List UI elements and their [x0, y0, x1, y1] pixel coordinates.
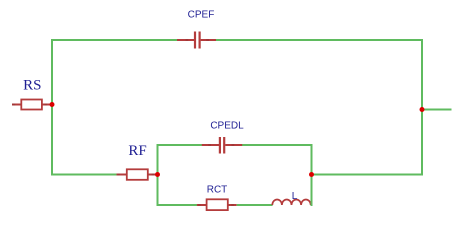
- pin tick CPEF left lead: [186, 39, 189, 41]
- resistor RF: [117, 169, 158, 180]
- wire top rail right segment: [216, 39, 423, 41]
- wire sub-circuit right rail: [311, 144, 313, 206]
- pin tick RCT right lead: [231, 204, 234, 206]
- wire middle horizontal: [312, 174, 424, 176]
- wire bottom branch middle segment: [237, 204, 273, 206]
- wire CPEDL branch left segment: [157, 144, 203, 146]
- pin tick RS right lead: [45, 104, 48, 106]
- svg-text:RCT: RCT: [207, 185, 228, 196]
- wire right rail vertical: [421, 39, 423, 176]
- junction dot sub-circuit-right/middle-wire: [309, 172, 314, 177]
- wire RF branch: [52, 174, 117, 176]
- junction dot RS/left-rail: [50, 102, 55, 107]
- wire sub-circuit left rail: [157, 144, 159, 206]
- pin tick RF left lead: [117, 174, 120, 176]
- capacitor CPEDL: [202, 137, 242, 154]
- pin tick RCT left lead: [198, 204, 201, 206]
- pin tick CPEDL left lead: [208, 144, 211, 146]
- wire bottom branch left segment: [157, 204, 198, 206]
- svg-text:CPEDL: CPEDL: [210, 121, 244, 132]
- junction dot RF/sub-circuit-left: [155, 172, 160, 177]
- pin tick CPEF right lead: [206, 39, 209, 41]
- wire top rail left segment: [52, 39, 178, 41]
- wire left rail vertical: [51, 39, 53, 176]
- junction dot right-rail/output: [420, 107, 425, 112]
- svg-text:L: L: [292, 191, 298, 202]
- pin tick RF right lead: [152, 174, 155, 176]
- inductor L: [272, 200, 310, 206]
- resistor RS: [12, 100, 52, 110]
- wire CPEDL branch right segment: [242, 144, 313, 146]
- svg-text:RF: RF: [128, 143, 146, 159]
- pin tick CPEDL right lead: [232, 144, 235, 146]
- svg-text:RS: RS: [23, 78, 41, 94]
- pin tick RS input lead: [12, 104, 15, 106]
- wire output lead: [422, 109, 452, 111]
- svg-text:CPEF: CPEF: [188, 10, 215, 21]
- capacitor CPEF: [177, 32, 216, 49]
- resistor RCT: [197, 199, 237, 210]
